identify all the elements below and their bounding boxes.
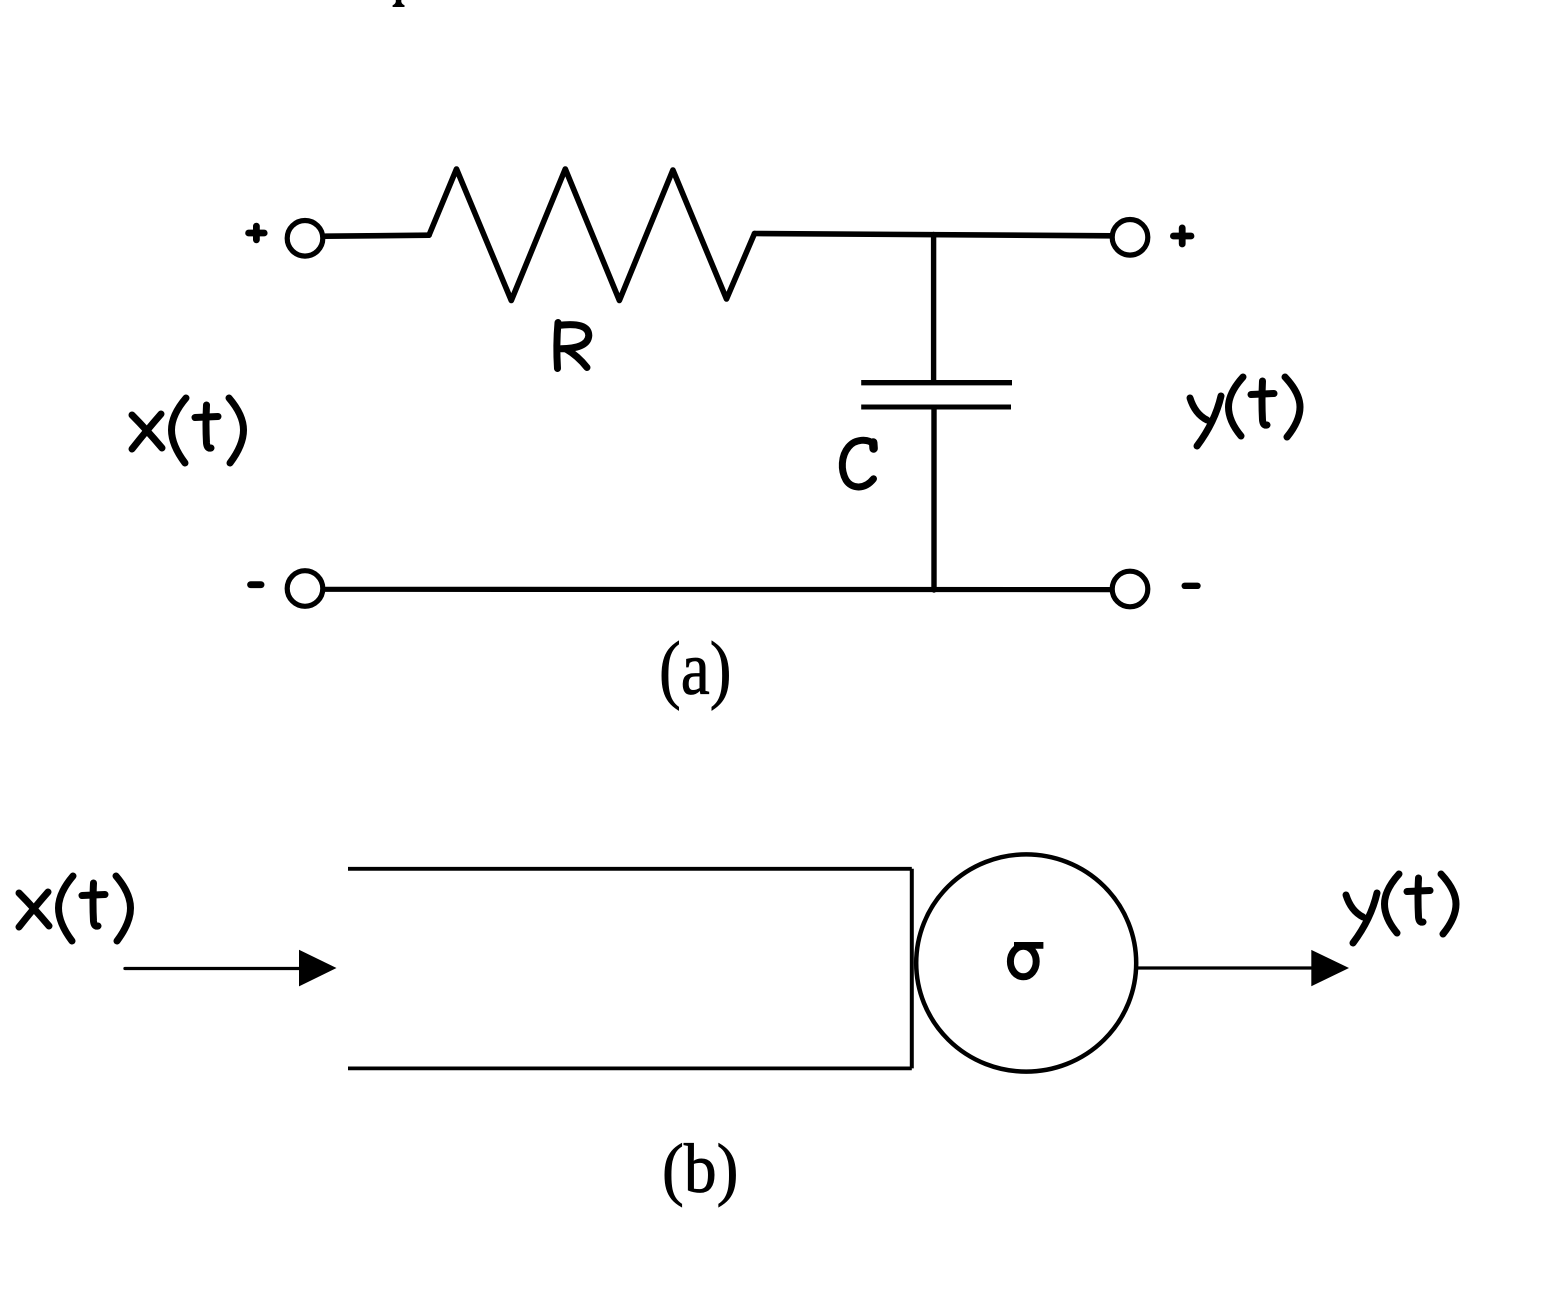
terminal circle top-right [1112,220,1148,256]
terminal circle bottom-right [1112,571,1148,607]
terminal minus bottom-right [1185,583,1198,589]
terminal plus top-left [249,226,265,240]
sigma circle [916,854,1136,1071]
label R [557,323,589,369]
delay box (open left rectangle) [348,867,912,871]
label sigma [1010,945,1043,976]
terminal circle top-left [287,221,323,257]
wire resistor to right terminal [755,234,1112,236]
resistor R [429,169,755,301]
node junction wire down to capacitor [931,235,936,382]
wire input top [326,235,430,236]
caption (b) [662,1130,738,1210]
wire bottom [326,587,1111,592]
terminal minus bottom-left [251,581,261,588]
label x(t) part a [132,398,244,463]
caption (a) [659,626,732,713]
capacitor C bottom plate [861,405,1011,410]
wire capacitor to bottom [931,408,936,591]
label y(t) part b [1346,874,1456,943]
terminal circle bottom-left [287,571,323,607]
label x(t) part b [19,876,131,941]
output arrow part b [1137,966,1315,969]
capacitor C top plate [861,380,1012,385]
label C [842,440,874,487]
page fragment (cropped serif letter foot, top edge) [393,0,405,7]
label y(t) part a [1190,377,1300,446]
input arrow part b [125,967,303,970]
terminal plus top-right [1173,228,1191,244]
